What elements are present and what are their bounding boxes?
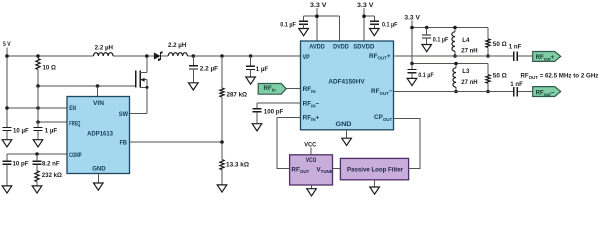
inductor 2.2uH (output) bbox=[168, 42, 187, 56]
svg-text:232 kΩ: 232 kΩ bbox=[42, 172, 62, 179]
svg-text:3.3 V: 3.3 V bbox=[310, 2, 328, 9]
junction dot SDVDD supply bbox=[362, 14, 366, 18]
svg-text:0.1 µF: 0.1 µF bbox=[433, 36, 449, 43]
svg-text:1 µF: 1 µF bbox=[45, 127, 58, 134]
junction dot bias rail 2 bbox=[410, 62, 414, 66]
svg-text:27 nH: 27 nH bbox=[461, 79, 477, 86]
node RF_in input connector bbox=[258, 84, 286, 95]
svg-text:2.2 µH: 2.2 µH bbox=[168, 42, 186, 49]
transistor Q1 NMOS bbox=[136, 56, 149, 114]
wire FB net bbox=[130, 141, 223, 143]
diode D1 schottky bbox=[154, 51, 162, 61]
svg-text:1 nF: 1 nF bbox=[510, 81, 523, 88]
wire SDVDD supply bbox=[364, 8, 374, 41]
capacitor 1nF (RFout+) bbox=[509, 43, 522, 61]
svg-text:13.3 kΩ: 13.3 kΩ bbox=[226, 161, 249, 168]
wire EN net bbox=[7, 107, 67, 109]
junction dot 50 Ohm bottom bbox=[486, 90, 490, 94]
inductor 2.2uH (input) bbox=[94, 45, 114, 56]
wire RF_IN+ to VCO output bbox=[277, 117, 301, 168]
wire COMP net bbox=[7, 153, 67, 155]
ground ADP1613 GND pin bbox=[94, 174, 104, 191]
junction dot L4 bottom bbox=[453, 54, 457, 58]
junction dot L3 bottom bbox=[454, 90, 458, 94]
svg-text:3.3 V: 3.3 V bbox=[357, 2, 375, 9]
junction dot 287k branch bbox=[220, 54, 224, 58]
capacitor 1uF (FREQ) bbox=[33, 86, 57, 147]
resistor 10 Ohm bbox=[36, 56, 56, 86]
junction dot L4 top bbox=[453, 26, 457, 30]
junction dot Q1 drain on top wire bbox=[145, 54, 149, 58]
junction dot bias cap 1 bbox=[425, 26, 429, 30]
capacitor 0.1uF (bias top) bbox=[422, 28, 449, 52]
capacitor 2.2uF bbox=[189, 56, 219, 90]
op-amp U3 VCO block bbox=[290, 155, 333, 185]
capacitor 1uF (VP) bbox=[246, 56, 269, 84]
junction dot gate net at rail column bbox=[36, 84, 40, 88]
svg-text:ADP1613: ADP1613 bbox=[87, 130, 113, 137]
junction dot EN at 5V rail bbox=[5, 106, 9, 110]
junction dot VIN branch bbox=[96, 84, 100, 88]
junction dot bias rail 1 bbox=[410, 26, 414, 30]
capacitor 0.1uF (bias bottom) bbox=[407, 64, 434, 86]
svg-text:VIN: VIN bbox=[93, 100, 104, 107]
svg-text:0.1 µF: 0.1 µF bbox=[382, 22, 398, 29]
wire VCC stub bbox=[310, 148, 312, 155]
node RF_out+ connector bbox=[533, 52, 561, 62]
capacitor 10uF bbox=[2, 127, 29, 147]
op-amp U4 Passive Loop Filter block bbox=[340, 158, 408, 179]
svg-text:AVDD: AVDD bbox=[309, 43, 325, 50]
svg-text:1 nF: 1 nF bbox=[509, 43, 522, 50]
svg-text:50 Ω: 50 Ω bbox=[493, 73, 507, 80]
svg-text:DVDD: DVDD bbox=[333, 43, 349, 50]
junction dot 50 Ohm top bottom bbox=[486, 54, 490, 58]
resistor 232 kOhm bbox=[32, 171, 62, 193]
resistor 50 Ohm (top) bbox=[486, 28, 507, 57]
junction dot FREQ bbox=[36, 120, 40, 124]
svg-text:0.1 µF: 0.1 µF bbox=[280, 22, 296, 29]
wire SW net bbox=[130, 113, 148, 115]
wire AVDD/DVDD supply bbox=[304, 8, 340, 41]
svg-text:ADF4150HV: ADF4150HV bbox=[328, 78, 365, 85]
junction dot COMP bbox=[35, 152, 39, 156]
svg-text:GND: GND bbox=[92, 166, 106, 173]
svg-text:VCO: VCO bbox=[306, 157, 317, 164]
wire 3.3V RF bias rails bbox=[412, 21, 488, 64]
junction dot 2.2uF branch bbox=[192, 54, 196, 58]
svg-text:VCC: VCC bbox=[304, 142, 317, 149]
capacitor 1nF (RFout-) bbox=[510, 81, 523, 96]
wire VTUNE to loop filter bbox=[333, 167, 341, 169]
junction dot EN at column bbox=[36, 106, 40, 110]
wire VIN stub bbox=[97, 86, 99, 97]
inductor L3 27nH bbox=[453, 64, 478, 92]
svg-text:10 µF: 10 µF bbox=[13, 127, 29, 134]
op-amp U1 ADP1613 boost regulator bbox=[67, 97, 130, 174]
wire gate net horizontal bbox=[38, 85, 136, 87]
wire RF_in to chip bbox=[286, 88, 300, 90]
capacitor 0.1uF (AVDD) bbox=[280, 16, 308, 36]
wire RF_IN- net bbox=[257, 103, 301, 109]
resistor 50 Ohm (bottom) bbox=[486, 64, 507, 92]
svg-text:SW: SW bbox=[119, 111, 129, 118]
capacitor 8.2nF bbox=[33, 154, 60, 171]
svg-text:27 nH: 27 nH bbox=[461, 47, 477, 54]
ground loop filter bbox=[370, 180, 380, 194]
svg-text:VP: VP bbox=[303, 54, 311, 61]
resistor 13.3 kOhm bbox=[217, 160, 249, 192]
wire CP_OUT to loop filter bbox=[394, 119, 421, 169]
resistor 287 kOhm bbox=[220, 56, 247, 160]
junction dot AVDD supply bbox=[315, 14, 319, 18]
svg-text:RFIN+: RFIN+ bbox=[303, 115, 320, 123]
svg-text:8.2 nF: 8.2 nF bbox=[42, 160, 60, 167]
svg-text:FB: FB bbox=[120, 140, 128, 147]
wire RF_OUT+ net bbox=[394, 55, 533, 57]
svg-text:100 pF: 100 pF bbox=[264, 109, 284, 116]
ground VCO bbox=[307, 185, 317, 196]
inductor L4 27nH bbox=[452, 28, 478, 57]
junction dot L3 top bbox=[454, 62, 458, 66]
svg-text:L3: L3 bbox=[462, 68, 470, 75]
svg-text:5 V: 5 V bbox=[3, 41, 11, 48]
svg-text:50 Ω: 50 Ω bbox=[493, 41, 507, 48]
svg-text:3.3 V: 3.3 V bbox=[404, 14, 421, 21]
svg-text:10 pF: 10 pF bbox=[13, 160, 29, 167]
wire top output net horizontal bbox=[7, 55, 301, 57]
svg-text:L4: L4 bbox=[462, 37, 470, 44]
junction dot 1uF branch bbox=[249, 54, 253, 58]
op-amp U2 ADF4150HV PLL bbox=[301, 41, 394, 130]
svg-text:COMP: COMP bbox=[69, 152, 82, 159]
wire FREQ net bbox=[38, 121, 67, 123]
capacitor 0.1uF (SDVDD) bbox=[370, 16, 398, 36]
svg-text:GND: GND bbox=[336, 121, 352, 128]
svg-text:Passive Loop Filter: Passive Loop Filter bbox=[347, 167, 403, 174]
svg-text:RFIN−: RFIN− bbox=[303, 101, 320, 109]
junction dot 5V rail / top wire bbox=[5, 54, 9, 58]
capacitor 100pF bbox=[252, 109, 283, 131]
junction dot FB / divider bbox=[220, 140, 224, 144]
svg-text:2.2 µF: 2.2 µF bbox=[200, 66, 219, 73]
ground ADF4150HV GND pin bbox=[342, 130, 352, 146]
junction dot 10 Ohm top bbox=[36, 54, 40, 58]
svg-text:287 kΩ: 287 kΩ bbox=[227, 91, 248, 98]
wire RF_OUT- net bbox=[394, 91, 533, 93]
capacitor 10pF bbox=[2, 154, 28, 193]
node RF_out- connector bbox=[533, 87, 561, 97]
svg-text:0.1 µF: 0.1 µF bbox=[418, 72, 434, 79]
svg-text:2.2 µH: 2.2 µH bbox=[95, 45, 113, 52]
svg-text:FREQ: FREQ bbox=[69, 120, 80, 127]
svg-text:1 µF: 1 µF bbox=[256, 66, 269, 73]
wire 5V rail vertical bbox=[6, 48, 8, 128]
svg-text:SDVDD: SDVDD bbox=[353, 43, 374, 50]
svg-text:10 Ω: 10 Ω bbox=[43, 65, 56, 72]
svg-text:EN: EN bbox=[69, 105, 76, 112]
